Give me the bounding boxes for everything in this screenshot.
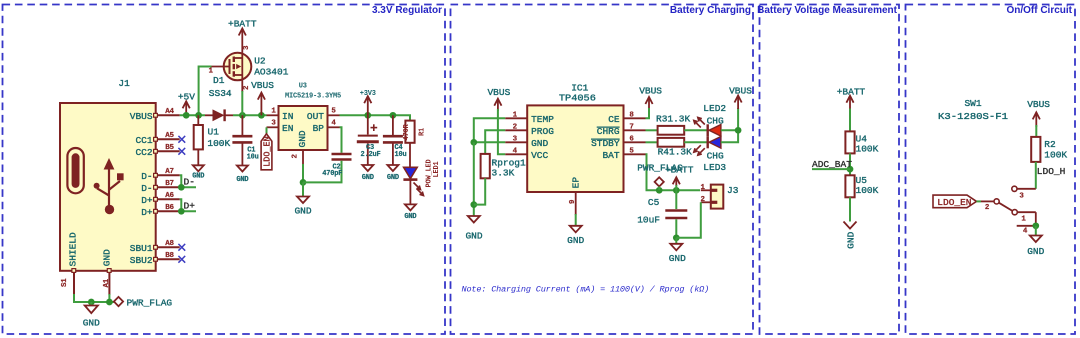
- pin name D+ of J1: [141, 207, 153, 218]
- pin B6 of J1: [154, 204, 180, 213]
- svg-text:SBU1: SBU1: [130, 243, 153, 254]
- svg-text:8: 8: [629, 112, 634, 120]
- pin 2 of U2: [243, 85, 251, 90]
- svg-text:TEMP: TEMP: [531, 114, 554, 125]
- reference U3: [299, 83, 307, 91]
- power symbol VBUS at LEDs: [729, 86, 752, 109]
- svg-text:CE: CE: [608, 114, 620, 125]
- svg-text:OUT: OUT: [307, 111, 324, 122]
- svg-text:A1: A1: [103, 278, 111, 287]
- svg-text:5: 5: [331, 108, 336, 116]
- pin S1 of J1: [61, 269, 76, 295]
- svg-text:100K: 100K: [1044, 150, 1067, 161]
- regulator U3 MIC5219-3.3YM5: [279, 106, 328, 150]
- note text: charging current formula: [462, 285, 710, 295]
- svg-text:3: 3: [243, 45, 251, 50]
- capacitor C4 10u output cap: [383, 115, 407, 165]
- svg-text:470R: 470R: [403, 123, 411, 140]
- svg-text:+5V: +5V: [178, 91, 195, 102]
- section title: Battery Voltage Measurement: [757, 5, 898, 16]
- pin name VBUS of J1: [130, 111, 153, 122]
- pin name CC1 of J1: [135, 135, 152, 146]
- IC IC1 TP4056 body: [527, 105, 623, 192]
- pin name D- of J1: [141, 183, 152, 194]
- svg-text:K3-1280S-F1: K3-1280S-F1: [938, 111, 1008, 122]
- junction Rprog bottom: [470, 201, 477, 208]
- reference IC1: [571, 83, 588, 94]
- pin 1 TEMP of IC1: [505, 112, 554, 125]
- svg-text:Battery Voltage Measurement: Battery Voltage Measurement: [757, 5, 898, 16]
- svg-text:Battery Charging: Battery Charging: [670, 5, 751, 16]
- svg-text:IN: IN: [282, 111, 293, 122]
- pin B8 of J1: [154, 252, 180, 261]
- svg-text:Note: Charging Current (mA) =: Note: Charging Current (mA) = 1100(V) / …: [462, 285, 710, 295]
- capacitor C1 10u input cap: [232, 115, 258, 165]
- pin 4 VCC of IC1: [505, 148, 548, 161]
- svg-text:S1: S1: [61, 278, 69, 287]
- LED2 CHG red charge LED: [694, 103, 727, 136]
- node label D+: [184, 201, 196, 212]
- svg-text:VBUS: VBUS: [639, 86, 662, 97]
- svg-text:CHG: CHG: [707, 151, 724, 162]
- svg-text:+BATT: +BATT: [228, 18, 257, 29]
- wire CE to VBUS: [646, 108, 650, 118]
- pin EN of U3: [267, 120, 294, 134]
- svg-text:10u: 10u: [247, 154, 259, 162]
- power symbol +5V: [178, 91, 195, 115]
- svg-text:R31.3K: R31.3K: [656, 114, 691, 125]
- pin 5 BAT of IC1: [602, 148, 645, 161]
- svg-text:GND: GND: [362, 174, 374, 182]
- wire R41.3K to LED3: [684, 141, 708, 143]
- reference SW1: [964, 98, 981, 109]
- wire U4 to U5: [849, 153, 851, 175]
- wire PROG to Rprog1: [485, 130, 505, 154]
- global label LDO_EN at EN pin: [261, 127, 273, 170]
- wire TEMP to GND column: [474, 118, 505, 142]
- svg-text:100K: 100K: [856, 185, 879, 196]
- wire Rprog1 to ground column: [474, 178, 485, 204]
- reference J3: [727, 185, 739, 196]
- pin 4 of SW1: [1023, 227, 1028, 235]
- ground arrow below U5: [844, 222, 857, 249]
- svg-text:GND: GND: [531, 138, 548, 149]
- USB trident icon: [94, 158, 124, 214]
- power symbol +BATT above U2: [228, 18, 257, 53]
- capacitor C5 10uF battery cap: [637, 190, 687, 238]
- svg-text:GND: GND: [192, 173, 204, 181]
- wire R31.3K to LED2: [684, 129, 708, 131]
- svg-text:10uF: 10uF: [637, 214, 660, 225]
- svg-text:A6: A6: [165, 192, 174, 200]
- svg-text:GND: GND: [236, 176, 248, 184]
- wire A1 to ground: [108, 294, 110, 302]
- svg-text:7: 7: [629, 124, 633, 132]
- LED3 CHG blue standby LED: [694, 136, 727, 173]
- pin A5 of J1: [154, 132, 180, 141]
- wire VBUS rail from J1 to diode: [180, 114, 205, 116]
- capacitor C2 470pF bypass: [303, 127, 352, 182]
- svg-text:AO3401: AO3401: [254, 66, 289, 77]
- svg-text:B5: B5: [165, 144, 174, 152]
- junction at A1: [106, 299, 113, 306]
- svg-text:On/Off Circuit: On/Off Circuit: [1006, 5, 1072, 16]
- ground below C5: [669, 238, 686, 264]
- section border: Battery Charging block: [451, 5, 754, 335]
- pin name SBU2 of J1: [130, 255, 153, 266]
- junction gate/U1 node: [195, 112, 202, 119]
- wire diode to source junction: [233, 114, 267, 116]
- junction switch ground: [1032, 222, 1039, 229]
- junction VBUS arrow: [258, 112, 265, 119]
- transistor U2 AO3401 P-MOSFET: [212, 53, 252, 92]
- svg-text:3.3V Regulator: 3.3V Regulator: [372, 5, 442, 16]
- svg-text:VBUS: VBUS: [729, 86, 752, 97]
- svg-text:D+: D+: [184, 201, 196, 212]
- section title: Battery Charging: [670, 5, 751, 16]
- svg-text:R41.3K: R41.3K: [658, 147, 693, 158]
- resistor U1 100K gate pulldown: [194, 115, 231, 149]
- svg-text:2: 2: [985, 204, 990, 212]
- wire VBUS to VCC: [498, 109, 505, 154]
- pin name D- of J1: [141, 171, 152, 182]
- svg-text:LDO_H: LDO_H: [1037, 166, 1066, 177]
- svg-text:4: 4: [331, 120, 336, 128]
- pin 1 of U2: [209, 68, 214, 76]
- svg-text:TP4056: TP4056: [559, 92, 596, 103]
- junction LED2 anode: [735, 127, 742, 134]
- junction ADC_BAT: [847, 166, 854, 173]
- power symbol VBUS at CE: [639, 86, 662, 110]
- svg-text:6: 6: [629, 136, 634, 144]
- svg-text:1: 1: [513, 112, 518, 120]
- svg-text:U1: U1: [208, 127, 220, 138]
- svg-text:9: 9: [569, 199, 577, 204]
- svg-text:4: 4: [513, 148, 518, 156]
- svg-text:VBUS: VBUS: [251, 80, 274, 91]
- power flag PWR_FLAG at J1 ground: [114, 297, 173, 309]
- svg-text:R2: R2: [1044, 139, 1056, 150]
- svg-text:B6: B6: [165, 204, 174, 212]
- power symbol +BATT at battery node: [665, 165, 694, 191]
- section border: Battery Voltage Measurement block: [760, 5, 900, 335]
- wire BAT to battery node: [646, 154, 701, 190]
- pin 9 EP of IC1: [569, 177, 582, 216]
- no-connect X on CC2: [178, 148, 185, 155]
- svg-text:LED2: LED2: [703, 103, 726, 114]
- svg-text:CHG: CHG: [707, 115, 724, 126]
- svg-text:5: 5: [629, 148, 634, 156]
- connector J1 USB-C body: [60, 103, 156, 271]
- svg-text:470pF: 470pF: [322, 170, 342, 178]
- svg-text:LED3: LED3: [703, 162, 726, 173]
- section title: 3.3V Regulator: [372, 5, 442, 16]
- svg-text:CC1: CC1: [135, 135, 152, 146]
- svg-text:VBUS: VBUS: [1027, 99, 1050, 110]
- junction C5 ground: [673, 234, 680, 241]
- pin 3 GND of IC1: [505, 136, 548, 149]
- svg-text:U3: U3: [299, 83, 307, 91]
- pin 8 CE of IC1: [608, 112, 645, 125]
- svg-text:LDO_EN: LDO_EN: [262, 136, 273, 167]
- section border: On/Off Circuit block: [906, 5, 1076, 335]
- junction transistor source / C1: [239, 112, 246, 119]
- svg-text:A4: A4: [165, 108, 174, 116]
- svg-text:3: 3: [513, 136, 518, 144]
- svg-text:EP: EP: [571, 177, 582, 189]
- pin A1 of J1: [103, 269, 111, 295]
- svg-text:VBUS: VBUS: [487, 87, 510, 98]
- resistor R41.3K: [658, 138, 693, 158]
- svg-text:U2: U2: [254, 56, 266, 67]
- pin 1 of SW1: [1021, 216, 1026, 224]
- svg-text:10u: 10u: [395, 151, 407, 159]
- wire STDBY to R41.3K: [646, 141, 658, 143]
- svg-text:2: 2: [513, 124, 518, 132]
- wire +BATT to U4: [849, 109, 851, 132]
- svg-text:B8: B8: [165, 252, 174, 260]
- wire U2 source to VBUS rail: [241, 91, 243, 115]
- svg-text:MIC5219-3.3YM5: MIC5219-3.3YM5: [285, 92, 341, 100]
- svg-text:BP: BP: [313, 123, 325, 134]
- ground below EP: [567, 214, 584, 246]
- section title: On/Off Circuit: [1006, 5, 1072, 16]
- svg-text:2: 2: [243, 85, 251, 90]
- global label LDO_EN to switch: [933, 195, 977, 208]
- svg-text:SHIELD: SHIELD: [68, 232, 79, 267]
- ground below U1: [192, 149, 204, 180]
- pin A4 of J1: [154, 108, 180, 117]
- junction C4: [390, 112, 397, 119]
- svg-text:B7: B7: [165, 180, 174, 188]
- resistor Rprog1 3.3K: [481, 154, 526, 179]
- wire J3 pin2 to ground: [676, 202, 701, 238]
- svg-text:ADC_BAT: ADC_BAT: [812, 159, 852, 170]
- pin 2 of J3: [701, 196, 711, 204]
- svg-text:GND: GND: [297, 130, 308, 147]
- wire D+ stub: [180, 210, 196, 212]
- svg-text:R1: R1: [418, 128, 426, 136]
- svg-text:PROG: PROG: [531, 126, 554, 137]
- ground symbol below J1: [83, 302, 100, 329]
- wire LED anodes to VBUS: [721, 108, 738, 142]
- svg-text:D+: D+: [141, 195, 153, 206]
- svg-text:2: 2: [292, 154, 300, 159]
- capacitor C3 2.2uF polarized: [357, 115, 381, 165]
- USB capsule icon: [67, 148, 83, 193]
- svg-text:+BATT: +BATT: [837, 86, 866, 97]
- power symbol VBUS switch section: [1027, 99, 1050, 127]
- svg-text:VBUS: VBUS: [130, 111, 153, 122]
- wire J1 shield to ground: [74, 294, 114, 302]
- svg-text:A7: A7: [165, 168, 174, 176]
- pin OUT of U3: [307, 108, 340, 122]
- value TP4056: [559, 92, 596, 103]
- connector J3 battery: [711, 185, 724, 209]
- svg-text:100K: 100K: [856, 143, 879, 154]
- wire U3 GND to ground net: [302, 164, 304, 182]
- svg-text:3: 3: [1019, 192, 1024, 200]
- wire D- stub: [180, 186, 196, 188]
- power symbol +BATT divider top: [837, 86, 866, 110]
- svg-text:D1: D1: [213, 75, 225, 86]
- svg-text:1: 1: [271, 108, 276, 116]
- svg-text:1: 1: [209, 68, 214, 76]
- pin name SHIELD of J1: [68, 232, 79, 267]
- svg-text:2.2uF: 2.2uF: [361, 151, 381, 159]
- svg-text:GND: GND: [846, 231, 857, 248]
- LED1 POW_LED blue power LED: [403, 143, 440, 196]
- resistor U4 100K divider top: [845, 131, 878, 154]
- svg-text:LDO_EN: LDO_EN: [937, 197, 971, 208]
- wire ADC_BAT label: [812, 168, 850, 170]
- wire gate pull node: [199, 67, 212, 116]
- pin A6 of J1: [154, 192, 180, 201]
- value MIC5219-3.3YM5: [285, 92, 341, 100]
- ground below Rprog1: [465, 216, 482, 242]
- power symbol +3V3: [360, 90, 376, 115]
- pin BP of U3: [313, 120, 340, 134]
- junction at GND drop: [88, 299, 95, 306]
- svg-text:J3: J3: [727, 185, 739, 196]
- svg-text:GND: GND: [404, 213, 416, 221]
- svg-text:+BATT: +BATT: [665, 165, 694, 176]
- power symbol VBUS at TEMP: [487, 87, 510, 111]
- pin name SBU1 of J1: [130, 243, 153, 254]
- no-connect X on CC1: [178, 136, 185, 143]
- svg-text:D-: D-: [141, 171, 152, 182]
- diode D1 SS34: [205, 75, 233, 121]
- svg-text:A8: A8: [165, 240, 174, 248]
- junction D-: [178, 184, 185, 191]
- svg-text:J1: J1: [118, 78, 130, 89]
- junction TEMP/GND: [470, 139, 477, 146]
- wire 3V3 output rail: [340, 115, 411, 120]
- svg-text:100K: 100K: [207, 138, 230, 149]
- node label LDO_H: [1037, 166, 1066, 177]
- wire D- pair link: [180, 175, 182, 187]
- svg-text:GND: GND: [1027, 246, 1044, 257]
- ground below C4: [387, 165, 399, 182]
- svg-text:+3V3: +3V3: [360, 90, 376, 98]
- no-connect X on SBU1: [178, 244, 185, 251]
- ground below C1: [236, 166, 248, 184]
- wire D+ pair link: [180, 199, 182, 211]
- pin name CC2 of J1: [135, 147, 152, 158]
- junction +5V: [183, 112, 190, 119]
- svg-text:4: 4: [1023, 227, 1028, 235]
- svg-text:GND: GND: [83, 318, 100, 329]
- reference J1: [118, 78, 130, 89]
- svg-text:D-: D-: [141, 183, 152, 194]
- junction PWR_FLAG: [656, 187, 663, 194]
- svg-text:BAT: BAT: [602, 150, 619, 161]
- svg-text:3.3K: 3.3K: [492, 168, 515, 179]
- pin 3 of SW1: [1019, 192, 1024, 200]
- ground below U3: [294, 182, 311, 216]
- pin name D+ of J1: [141, 195, 153, 206]
- pin 3 of U2: [243, 45, 251, 50]
- svg-text:1: 1: [701, 184, 706, 192]
- svg-text:1: 1: [1021, 216, 1026, 224]
- pin 1 of J3: [701, 184, 711, 192]
- svg-text:3: 3: [271, 120, 276, 128]
- junction U3 ground: [300, 179, 307, 186]
- svg-text:GND: GND: [101, 249, 112, 266]
- switch SW1 K3-1280S-F1 SPDT: [981, 186, 1036, 226]
- svg-text:C5: C5: [648, 197, 660, 208]
- node label ADC_BAT: [812, 159, 852, 170]
- value K3-1280S-F1: [938, 111, 1008, 122]
- pin 2 PROG of IC1: [505, 124, 554, 137]
- junction D+: [178, 208, 185, 215]
- svg-text:PWR_FLAG: PWR_FLAG: [127, 298, 173, 309]
- power flag PWR_FLAG at battery: [637, 162, 683, 190]
- resistor R2 100K pullup: [1031, 137, 1067, 162]
- wire VBUS to R2: [1035, 125, 1037, 137]
- pin GND of U3: [292, 130, 308, 165]
- svg-text:SBU2: SBU2: [130, 255, 153, 266]
- pin A7 of J1: [154, 168, 180, 177]
- ground below C3: [362, 165, 374, 182]
- no-connect X on SBU2: [178, 256, 185, 263]
- svg-text:GND: GND: [465, 231, 482, 242]
- pin IN of U3: [267, 108, 294, 122]
- node label D-: [184, 177, 195, 188]
- wire CHRG to R31.3K: [646, 129, 658, 131]
- wire U5 to ground: [849, 197, 851, 221]
- wire GND pin to column: [474, 141, 505, 143]
- pin B5 of J1: [154, 144, 180, 153]
- pin A8 of J1: [154, 240, 180, 249]
- svg-text:SW1: SW1: [964, 98, 981, 109]
- wire GND column down: [473, 142, 475, 216]
- pin name GND of J1: [101, 249, 112, 266]
- resistor R1 470R LED series: [403, 121, 426, 143]
- pin 6 STDBY of IC1: [591, 136, 646, 149]
- svg-text:A5: A5: [165, 132, 174, 140]
- svg-text:EN: EN: [282, 123, 293, 134]
- svg-text:GND: GND: [669, 253, 686, 264]
- pin 2 of SW1: [985, 204, 990, 212]
- ground below LED1: [404, 180, 416, 222]
- svg-text:SS34: SS34: [209, 88, 232, 99]
- svg-text:GND: GND: [294, 206, 311, 217]
- svg-text:D+: D+: [141, 207, 153, 218]
- wire R2 to switch node LDO_H: [1035, 162, 1037, 189]
- wire LDO_EN to switch pin 2: [977, 200, 982, 202]
- reference U2 AO3401: [254, 56, 289, 78]
- resistor U5 100K divider bottom: [845, 175, 878, 197]
- pin 7 CHRG of IC1: [597, 124, 646, 137]
- svg-text:GND: GND: [387, 174, 399, 182]
- pin B7 of J1: [154, 180, 180, 189]
- svg-text:LED1: LED1: [433, 161, 441, 177]
- junction C3: [364, 112, 371, 119]
- svg-text:VCC: VCC: [531, 150, 548, 161]
- resistor R31.3K: [656, 114, 691, 135]
- junction +BATT/C5: [673, 187, 680, 194]
- section border: 3.3V Regulator block: [3, 5, 446, 335]
- svg-text:CC2: CC2: [135, 147, 152, 158]
- svg-text:GND: GND: [567, 235, 584, 246]
- power symbol VBUS at regulator input: [251, 80, 274, 115]
- ground below SW1: [1027, 226, 1044, 257]
